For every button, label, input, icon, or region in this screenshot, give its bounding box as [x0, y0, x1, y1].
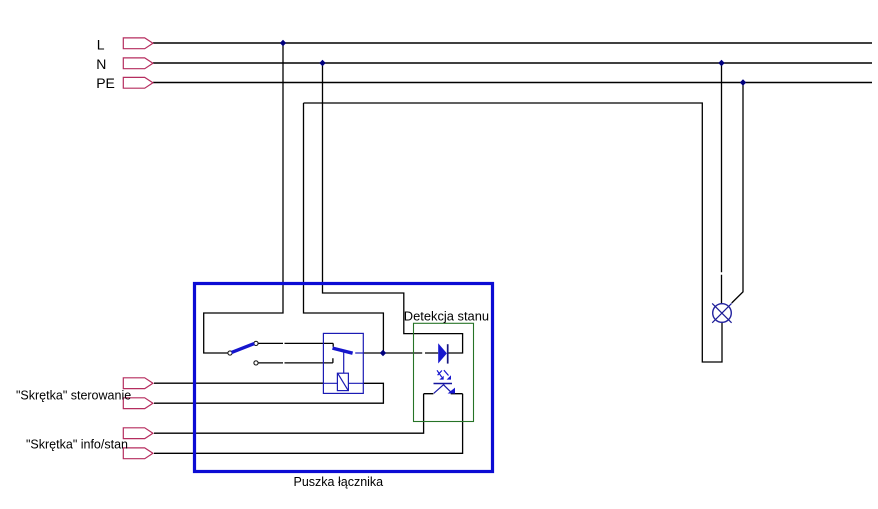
wire L rail [153, 42, 872, 44]
junction J4 on PE right [740, 79, 746, 85]
wire N drop to lamp [721, 63, 723, 304]
relay K1 common lead [355, 352, 363, 354]
junction J3 on N right [718, 60, 724, 66]
wire L drop to switch feed [204, 43, 283, 353]
box Detekcja stanu [414, 323, 474, 421]
connector info/stan 1 [123, 428, 153, 439]
optocoupler U1 base bar [434, 383, 453, 385]
svg-text:Puszka łącznika: Puszka łącznika [294, 475, 384, 489]
connector sterowanie 2 [123, 398, 153, 409]
switch S1 contact lower [254, 361, 258, 365]
wire lamp return loop [304, 103, 723, 362]
svg-text:"Skrętka" sterowanie: "Skrętka" sterowanie [16, 389, 131, 403]
connector info/stan 2 [123, 448, 153, 459]
svg-text:"Skrętka" info/stan: "Skrętka" info/stan [26, 438, 128, 452]
svg-text:PE: PE [96, 75, 115, 91]
wire N drop to detection [323, 63, 463, 353]
optocoupler U1 light arrow 2 [444, 370, 449, 375]
wire PE rail [153, 82, 872, 84]
wire switch upper throw [258, 343, 333, 346]
diode D1 cathode bar [447, 344, 449, 363]
connector sterowanie 1 [123, 378, 153, 389]
wire info/stan 2 [154, 394, 463, 454]
relay K1 lever [333, 348, 353, 353]
optocoupler U1 emitter leg [443, 384, 450, 391]
relay K1 coil leads [324, 382, 364, 384]
box Puszka lacznika [195, 284, 493, 472]
switch S1 lever [232, 344, 255, 353]
connector PE terminal [123, 77, 153, 88]
switch S1 contact upper [254, 341, 258, 345]
optocoupler U1 collector leg [434, 384, 444, 393]
wire lamp return into box [304, 103, 384, 353]
wire PE drop to lamp [732, 83, 743, 304]
wire phototransistor legs [424, 393, 463, 395]
relay K1 coil [337, 373, 348, 390]
junction J5 relay common [380, 350, 386, 356]
wire info/stan 1 [154, 394, 424, 434]
connector N terminal [123, 58, 153, 69]
wire relay common to diode [363, 352, 438, 354]
wire switch lower throw [258, 358, 333, 363]
diode D1 [438, 343, 447, 363]
lamp E1 cross [712, 303, 731, 322]
relay K1 coil diagonal [338, 374, 348, 390]
connector L terminal [123, 38, 153, 49]
wire sterowanie pair loop [154, 383, 383, 403]
optocoupler U1 emitter arrowhead [448, 388, 455, 394]
switch S1 contact left [228, 351, 232, 355]
relay K1 coil link [343, 351, 345, 373]
wire N rail [153, 62, 872, 64]
relay K1 box [323, 333, 363, 393]
junction J1 on L [280, 40, 286, 46]
optocoupler U1 light arrow 1 [437, 370, 442, 377]
svg-text:L: L [97, 37, 105, 53]
junction J2 on N [319, 60, 325, 66]
svg-text:Detekcja stanu: Detekcja stanu [404, 308, 489, 323]
svg-text:N: N [96, 56, 106, 72]
lamp E1 circle [713, 304, 732, 323]
